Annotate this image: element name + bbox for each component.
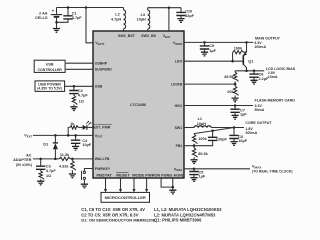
wire PWRON [146,178,148,189]
svg-text:100mA: 100mA [254,45,266,49]
svg-text:RESET: RESET [116,173,130,178]
wire MODE [133,178,135,189]
svg-text:(4.35V TO 5.5V): (4.35V TO 5.5V) [37,87,62,91]
node D1 tap [54,158,57,161]
capacitor C9 1uF [203,41,206,44]
resistor 20k [233,86,238,95]
node VBATT branch junction [85,6,88,9]
svg-text:PBSTAT: PBSTAT [97,173,113,178]
svg-text:EXT_PWR: EXT_PWR [94,126,111,130]
capacitor 220pF [211,130,214,133]
svg-text:20k: 20k [227,90,234,94]
capacitor C7 1uF [234,104,237,107]
resistor 4.32k [71,158,74,161]
ground C3 [37,181,44,185]
wire VMAX output [184,168,250,170]
svg-text:220pF: 220pF [216,138,228,142]
capacitor C6 10uF [233,126,236,129]
svg-text:200mA: 200mA [245,131,257,135]
wire SW1 line [184,127,194,129]
svg-text:22µF: 22µF [185,14,194,18]
svg-text:WALLFB: WALLFB [95,157,110,161]
svg-text:1Ω: 1Ω [79,99,84,103]
USB controller box [34,60,65,72]
svg-text:1µF: 1µF [209,49,216,53]
svg-text:4.7µF: 4.7µF [46,169,56,173]
svg-text:PGND: PGND [161,174,172,178]
svg-text:L3: L3 [141,13,145,17]
svg-text:(5V ±10%): (5V ±10%) [16,163,32,167]
resistor 49.9k [234,71,236,72]
ground 80.6k [191,160,198,164]
wire VBAT pin [168,8,170,31]
pushbutton SW PWRKEY [84,169,93,172]
wire LDOFB pin [184,83,235,85]
resistor 100k (base) [233,51,244,54]
inductor L1 10uH [194,126,211,128]
resistor 11.3k [59,157,71,160]
svg-text:SUSPEND: SUSPEND [95,68,112,72]
wire feedback diagonal tap [194,128,234,134]
wire RESET [120,178,122,189]
node LED tap [67,134,70,137]
svg-text:AC: AC [26,153,32,157]
svg-text:C9: C9 [209,44,214,48]
svg-text:4.7µF: 4.7µF [72,16,82,20]
wire battery top rail [57,7,124,9]
svg-text:USB POWER: USB POWER [38,82,61,86]
capacitor C8 2.2uF [253,70,256,73]
svg-text:10µH: 10µH [137,18,146,22]
svg-text:4.7µH: 4.7µH [111,17,121,21]
svg-text:10µF: 10µF [238,139,247,143]
capacitor C10 22uF [180,8,182,12]
svg-text:SW1: SW1 [175,126,183,130]
ground C2 [70,107,77,111]
diode D1 MBRM120E [54,134,57,137]
svg-text:2 AA: 2 AA [39,11,48,15]
svg-text:CELLS: CELLS [35,16,48,20]
svg-text:LDOFB: LDOFB [171,83,183,87]
inductor L3 10uH [147,8,149,10]
svg-text:4.7µF: 4.7µF [78,93,88,97]
wire HSO output [184,105,253,107]
svg-text:10µF: 10µF [82,143,91,147]
node battery bottom junction [55,21,58,24]
ground battery [53,29,60,33]
svg-text:PWRON: PWRON [145,173,160,178]
svg-text:LTC3456: LTC3456 [130,102,147,107]
wire VEXT rail [33,134,93,136]
svg-text:50mA: 50mA [255,108,265,112]
svg-text:Q1: Q1 [248,60,253,64]
transistor Q1 MMBT3906 [245,41,248,44]
svg-text:100k: 100k [198,137,207,141]
ground 20k [232,98,239,102]
svg-text:ADAPTER: ADAPTER [13,158,32,162]
svg-text:L2: L2 [115,13,119,17]
wire adapter line [33,158,59,160]
wire USB [65,85,93,87]
LED D2 external power indicator [83,125,87,130]
capacitor C5 1uF [193,168,196,171]
svg-text:PWRKEY: PWRKEY [95,167,111,171]
svg-text:4.32k: 4.32k [59,165,69,169]
svg-text:1µF: 1µF [199,175,206,179]
svg-text:1µF: 1µF [240,113,247,117]
svg-text:100k: 100k [234,46,243,50]
svg-text:CORE OUTPUT: CORE OUTPUT [245,121,272,125]
svg-text:(TO REAL-TIME CLOCK): (TO REAL-TIME CLOCK) [252,170,293,174]
wire LCD output line [235,70,264,72]
node C3 tap [39,158,42,161]
resistor 1k (LED) [68,127,70,135]
svg-text:MICROCONTROLLER: MICROCONTROLLER [105,195,146,200]
ground AGND [169,190,176,194]
capacitor C4 10uF [74,134,77,137]
resistor 1 ohm (USB) [72,95,77,104]
resistor 100k (feedback) [192,134,197,143]
capacitor C3 4.7uF [40,159,42,166]
resistor 1 ohm (adapter) [39,171,44,179]
node VBAT [168,6,171,9]
ground 4.32k [69,174,76,178]
svg-text:2.2µF: 2.2µF [259,77,269,81]
svg-text:Q1: PHILIPS MMBT3906: Q1: PHILIPS MMBT3906 [154,218,202,223]
svg-text:C3: C3 [46,165,51,169]
wire PBSTAT [105,178,107,189]
resistor 80.6k [192,148,197,157]
wire FB1 pin [184,145,194,147]
svg-text:MODE: MODE [132,173,144,178]
node C2 tap [73,85,76,88]
svg-text:10mA: 10mA [268,75,278,79]
node C1 top junction [67,6,70,9]
USB power box [35,81,65,92]
svg-text:LDO: LDO [175,60,183,64]
svg-text:80.6k: 80.6k [198,152,208,156]
svg-text:USB: USB [95,85,103,89]
wire LDO pin to base [184,60,243,62]
wire SUSPEND [66,68,93,70]
svg-text:11.3k: 11.3k [60,153,70,157]
svg-text:CONTROLLER: CONTROLLER [38,68,63,72]
wire L3 to VBAT node [148,7,181,9]
wire VMAIN output [184,41,253,43]
wire VBATT branch [86,8,93,43]
capacitor C2 4.7uF [73,86,75,90]
svg-text:SW2_BK: SW2_BK [141,34,156,38]
wire PGND/AGND [161,178,173,187]
svg-text:HSO: HSO [175,104,183,108]
svg-text:SW2_BST: SW2_BST [118,34,136,38]
svg-text:L1: L1 [198,117,202,121]
svg-text:AGND: AGND [173,174,184,178]
wire USBHP [66,62,93,64]
svg-text:49.9k: 49.9k [224,75,234,79]
svg-text:USB: USB [46,63,54,67]
svg-text:FB1: FB1 [176,144,183,148]
battery BT1 2 AA cells [56,8,58,14]
capacitor C1 4.7uF [67,8,69,16]
svg-text:FLASH MEMORY CARD: FLASH MEMORY CARD [255,99,296,103]
svg-text:C1: C1 [72,12,77,16]
microcontroller box [101,192,150,202]
svg-text:10µH: 10µH [197,122,206,126]
svg-text:D1: ON SEMICONDUCTOR MBRM120E: D1: ON SEMICONDUCTOR MBRM120E [81,218,155,223]
svg-text:1Ω: 1Ω [46,174,51,178]
ground pushbutton [81,184,88,188]
IC U1 LTC3456 [93,31,184,178]
svg-text:D1: D1 [43,143,48,147]
svg-text:USBHP: USBHP [95,61,108,65]
inductor L2 4.7uH [123,8,125,10]
